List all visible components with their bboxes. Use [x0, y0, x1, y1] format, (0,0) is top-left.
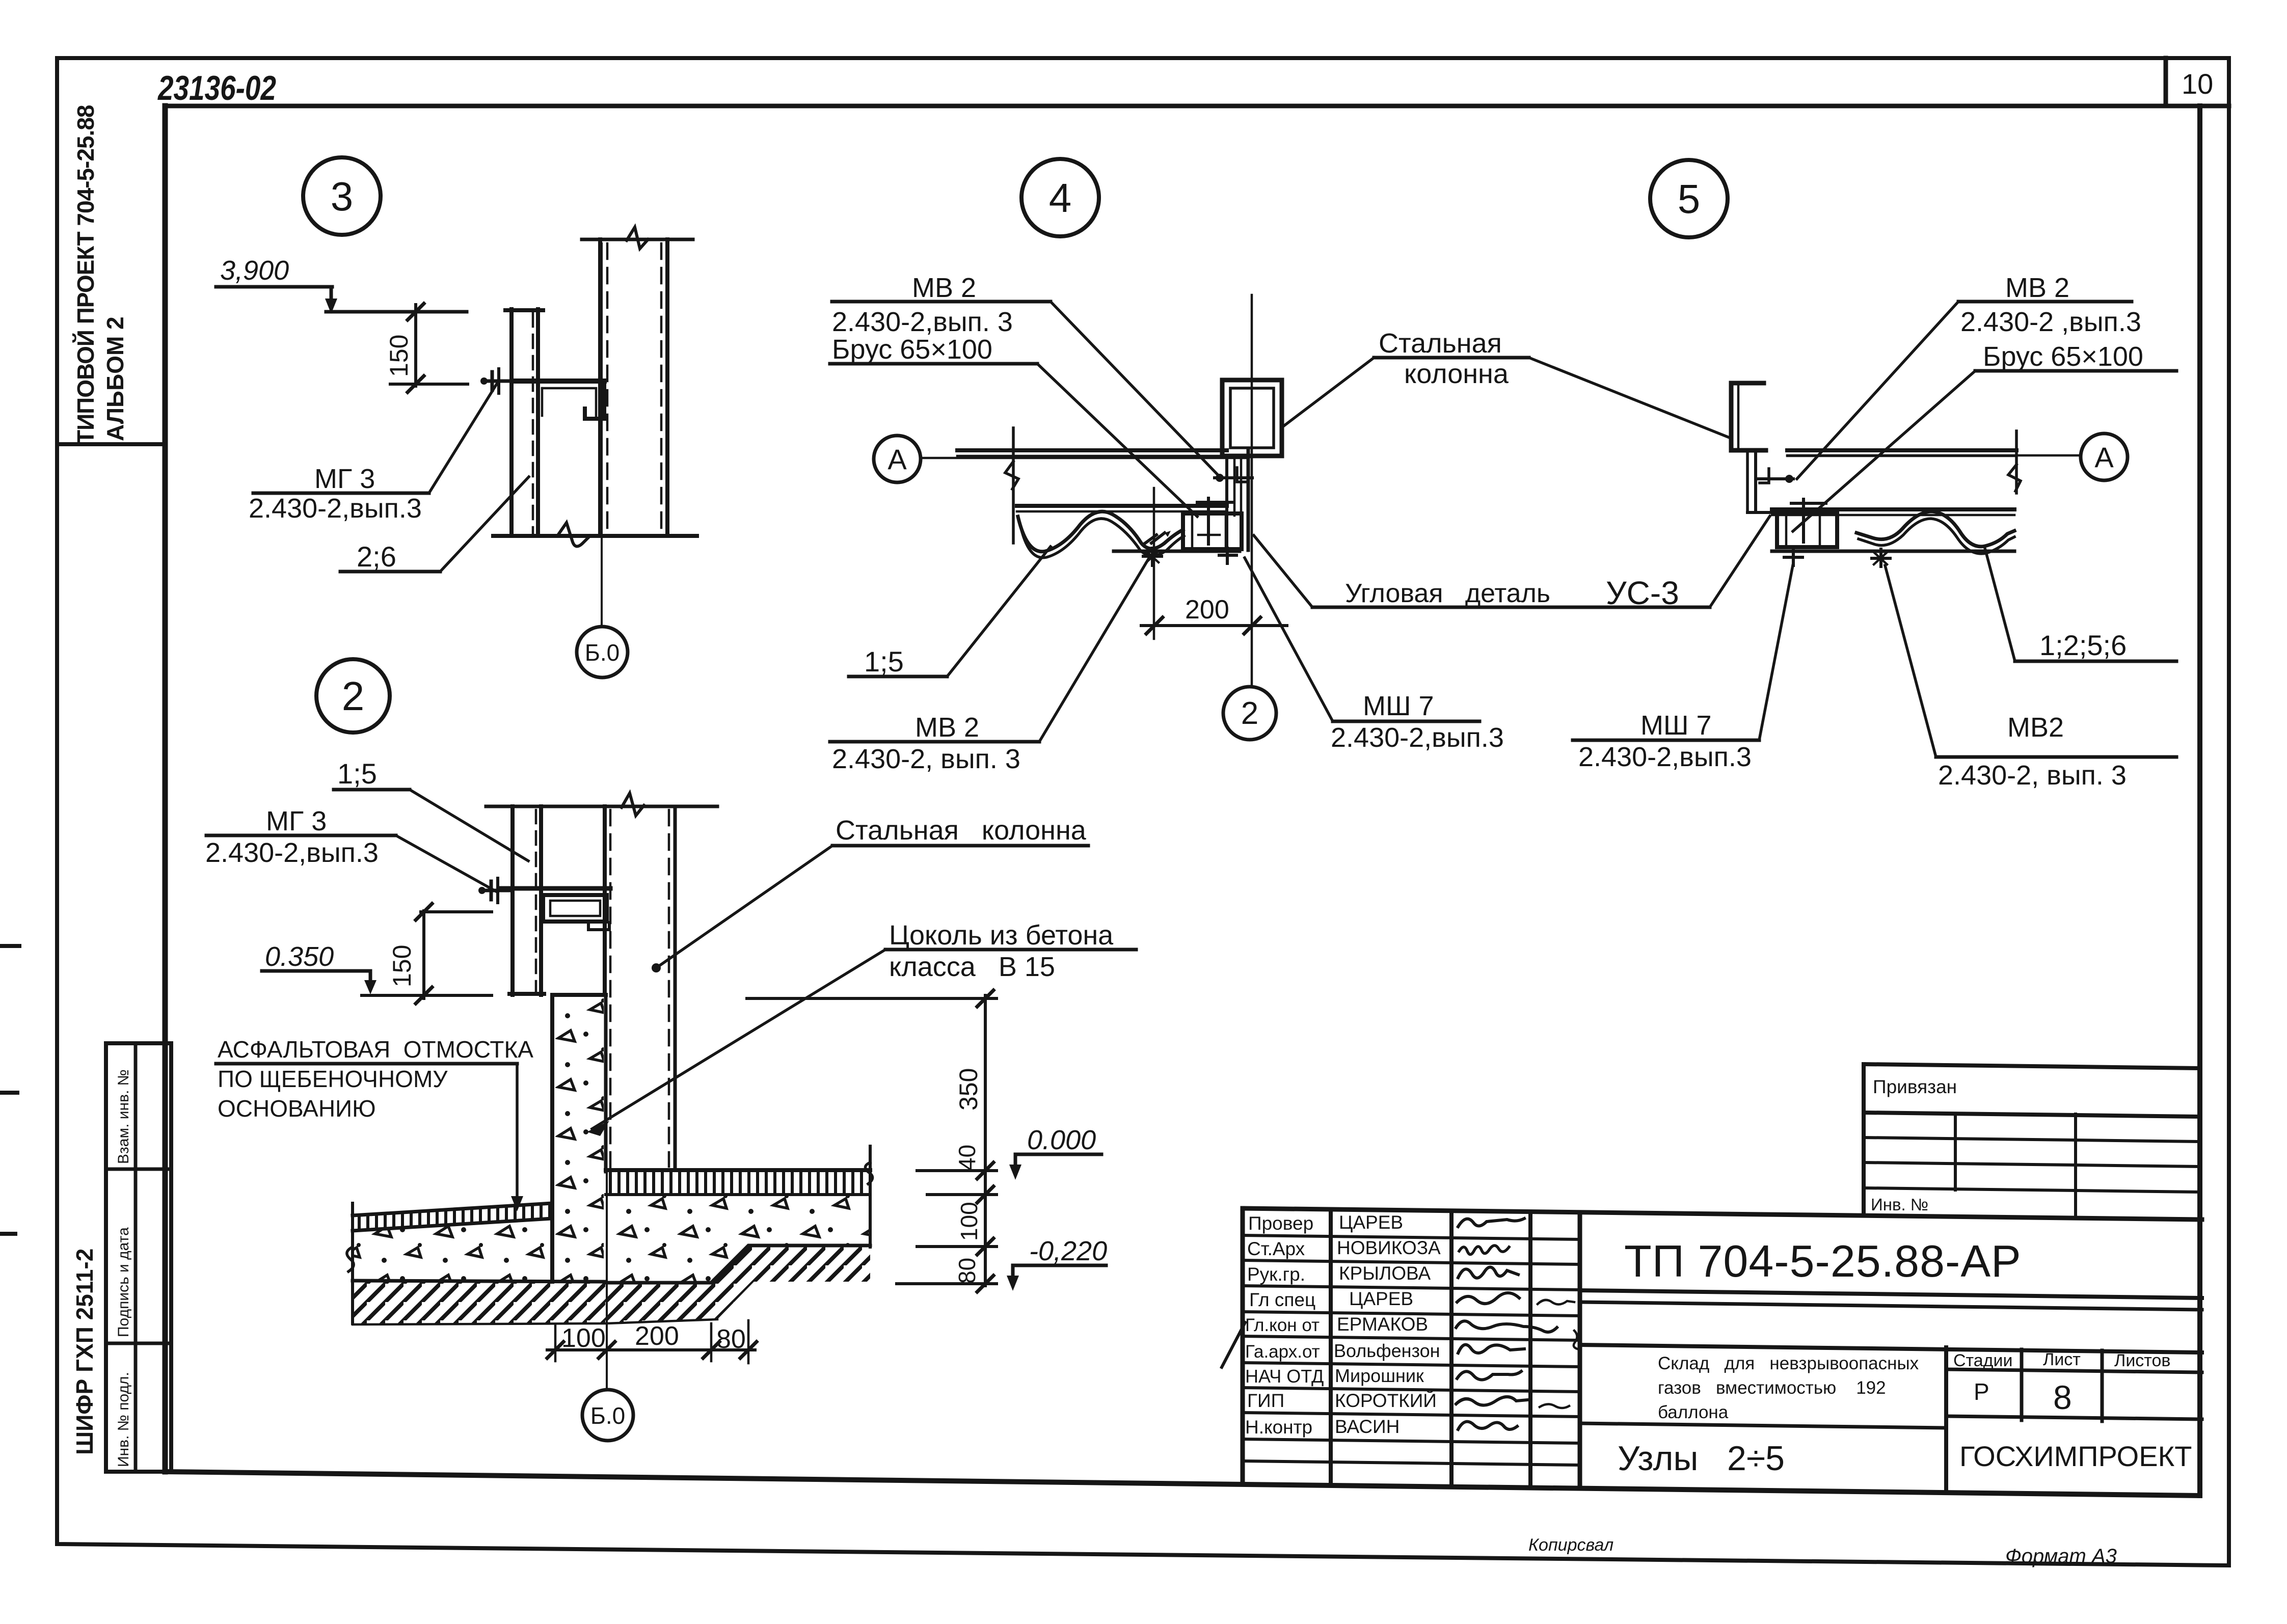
underline УС-3 [1312, 606, 1710, 609]
column left flange [598, 239, 602, 536]
svg-text:2.430-2,вып.3: 2.430-2,вып.3 [205, 837, 379, 868]
svg-text:Вольфензон: Вольфензон [1334, 1340, 1440, 1361]
binding col line 2 [2074, 1114, 2077, 1217]
stage value bottom [1946, 1416, 2202, 1419]
elevation drop line [330, 287, 333, 306]
svg-text:класса В 15: класса В 15 [889, 952, 1055, 982]
svg-text:МГ 3: МГ 3 [314, 464, 375, 494]
underline МВ2 bottom right [1936, 755, 2176, 759]
corrugated sheet wave outer [1856, 511, 2014, 547]
girt channel inner [550, 901, 600, 916]
svg-text:23136-02: 23136-02 [157, 69, 276, 107]
svg-text:Брус 65×100: Брус 65×100 [1983, 341, 2143, 372]
leader Цоколь [592, 950, 885, 1129]
axis bubble Б.0 bottom [582, 1390, 633, 1441]
svg-text:Брус 65×100: Брус 65×100 [832, 334, 992, 365]
channel flange marks [1737, 386, 1740, 447]
dim tick bottom [416, 987, 432, 1004]
leader Стальная to col5 [1529, 358, 1728, 437]
binding row line 3 [1864, 1188, 2200, 1192]
floor right end break [869, 1146, 872, 1247]
floor concrete fill [606, 1195, 870, 1283]
level line 0.350 [362, 994, 492, 997]
svg-text:-0,220: -0,220 [1029, 1236, 1107, 1266]
svg-text:Узлы 2÷5: Узлы 2÷5 [1618, 1439, 1785, 1478]
sheet number box divider [2164, 58, 2168, 106]
stage table left edge [1944, 1347, 1948, 1493]
wall panel top cap [505, 308, 543, 312]
svg-text:Склад для невзрывоопасных: Склад для невзрывоопасных [1658, 1354, 1919, 1373]
wall panel left edge [510, 806, 515, 995]
svg-text:3,900: 3,900 [220, 255, 289, 286]
plinth top [552, 993, 606, 997]
wall panel hidden line [535, 810, 537, 992]
svg-text:0.350: 0.350 [265, 941, 334, 972]
svg-text:150: 150 [385, 335, 413, 377]
svg-text:Б.0: Б.0 [590, 1402, 626, 1429]
column top break line [582, 238, 693, 241]
staff table col line 2 [1449, 1211, 1454, 1487]
sidebar table mid column line [134, 1043, 138, 1472]
svg-text:2: 2 [342, 673, 365, 719]
floor screed hatch band [606, 1170, 870, 1195]
binding col line 1 [1954, 1114, 1957, 1190]
panel bottom inner edge [1772, 514, 2014, 517]
svg-text:Б.0: Б.0 [585, 639, 620, 666]
right dim tick top [977, 990, 993, 1007]
dim bottom ext 3 [710, 1323, 713, 1361]
dim bottom ext 1 [554, 1324, 557, 1361]
stage header bottom [1946, 1369, 2202, 1372]
detail circle 3 [303, 157, 381, 235]
svg-text:350: 350 [954, 1068, 983, 1111]
leader 2;6 to panel [440, 477, 529, 572]
left edge crop mark 1 [0, 944, 19, 948]
staff row line 7 [1243, 1388, 1580, 1392]
svg-text:Стадии: Стадии [1953, 1351, 2012, 1370]
axis bubble 2 [1223, 687, 1276, 740]
svg-text:Стальная колонна: Стальная колонна [836, 815, 1087, 846]
sidebar table box [106, 1043, 171, 1472]
bottom break squiggle [557, 523, 590, 547]
underline МВ2 [1958, 300, 2132, 304]
svg-text:баллона: баллона [1658, 1402, 1729, 1422]
inner drawing frame bottom (slanted scan) [165, 1472, 2200, 1496]
svg-text:МВ 2: МВ 2 [912, 273, 976, 303]
title divider line 1 [1580, 1290, 2202, 1298]
floor screed top edge [606, 1168, 870, 1172]
top break line [486, 805, 717, 808]
svg-text:200: 200 [635, 1321, 679, 1351]
svg-text:1;2;5;6: 1;2;5;6 [2039, 629, 2127, 661]
svg-text:Рук.гр.: Рук.гр. [1247, 1264, 1305, 1285]
svg-text:КОРОТКИЙ: КОРОТКИЙ [1335, 1390, 1437, 1411]
panel bottom inner edge [1017, 510, 1227, 513]
floor concrete bottom profile [606, 1246, 870, 1283]
dimension terminator line [390, 383, 468, 386]
svg-text:МШ 7: МШ 7 [1363, 691, 1434, 721]
wall panel right edge [539, 806, 543, 995]
underline Стальная колонна [832, 844, 1088, 848]
asphalt leader drop [516, 1064, 519, 1205]
column channel section [1731, 383, 1766, 450]
svg-text:МВ 2: МВ 2 [915, 712, 979, 743]
drop -0,220 [1011, 1265, 1015, 1285]
sidebar table row line 1 [106, 1168, 171, 1171]
column hidden line left [606, 243, 609, 534]
svg-text:1;5: 1;5 [864, 645, 904, 678]
svg-text:ШИФР ГХП 2511-2: ШИФР ГХП 2511-2 [71, 1249, 98, 1455]
label underline 2;6 [340, 570, 440, 574]
dim tick left [1146, 617, 1163, 634]
edge plate lines [1746, 450, 1749, 512]
title divider line 4 [1580, 1423, 1946, 1428]
svg-text:ВАСИН: ВАСИН [1335, 1416, 1400, 1437]
svg-text:ГОСХИМПРОЕКТ: ГОСХИМПРОЕКТ [1959, 1440, 2192, 1472]
dim bottom tick 3 [703, 1342, 719, 1358]
stray pencil mark near staff table [1222, 1322, 1245, 1367]
УС-3 box inner line left [1191, 513, 1194, 549]
svg-text:Копирсвал: Копирсвал [1528, 1535, 1613, 1555]
girt rail [513, 378, 604, 384]
steel column square section outer [1222, 380, 1282, 456]
axis line А right [1787, 454, 2081, 457]
wall panel bottom cap [509, 992, 544, 996]
dim chain bottom line [547, 1348, 755, 1351]
corrugated sheet wave outer [1018, 511, 1183, 552]
staff row line 5 [1243, 1336, 1580, 1340]
underline МВ2 top [832, 300, 1051, 304]
svg-text:Р: Р [1974, 1378, 1989, 1405]
holddown bolt right [1226, 548, 1229, 563]
girt channel inner line [542, 388, 596, 416]
right dim chain vertical [984, 995, 987, 1286]
svg-text:2.430-2,вып. 3: 2.430-2,вып. 3 [832, 307, 1013, 337]
dim bottom tick 2 [599, 1342, 615, 1358]
underline -0,220 [1013, 1264, 1106, 1267]
svg-text:газов вместимостью 192: газов вместимостью 192 [1658, 1378, 1886, 1398]
holddown bolt mid [1879, 549, 1882, 566]
leader Брус right [1793, 371, 1975, 531]
panel right break line [2015, 431, 2018, 493]
panel left break line [1012, 428, 1015, 543]
dim bottom ext 4 [747, 1320, 750, 1363]
column hidden line right [660, 243, 663, 534]
panel top edge [957, 448, 1227, 452]
svg-text:ОСНОВАНИЮ: ОСНОВАНИЮ [218, 1095, 376, 1122]
corrugated sheet wave inner [1859, 519, 2014, 554]
title block top line [1243, 1208, 2202, 1220]
axis line to Б.0 bottom [606, 1172, 608, 1390]
svg-text:40: 40 [954, 1145, 980, 1171]
svg-text:Угловая деталь: Угловая деталь [1345, 579, 1550, 608]
sidebar table row line 2 [106, 1342, 171, 1345]
column top break zigzag [627, 227, 648, 249]
girt channel hook [585, 381, 604, 419]
staff row line 6 [1243, 1363, 1580, 1367]
leader УС-3 to detail4 [1254, 535, 1312, 607]
underline 0.350 [262, 969, 370, 973]
leader МШ7 [1245, 558, 1333, 721]
edge plate bottom step [1747, 511, 1779, 514]
box inner line right [1819, 513, 1821, 547]
arrowhead Цоколь [587, 1121, 609, 1136]
inner drawing frame left [163, 106, 168, 1472]
dimension tick bottom [408, 376, 424, 392]
pavement asphalt band fill [353, 1203, 552, 1231]
pavement base bottom edge [353, 1281, 606, 1282]
svg-text:Ст.Арх: Ст.Арх [1247, 1238, 1305, 1259]
anchor bolt in box [1207, 498, 1210, 544]
staff table col line 1 [1329, 1209, 1333, 1485]
svg-text:150: 150 [388, 945, 416, 987]
svg-text:2.430-2, вып. 3: 2.430-2, вып. 3 [832, 744, 1020, 774]
svg-text:ГИП: ГИП [1247, 1390, 1284, 1411]
main block left edge [1578, 1212, 1582, 1488]
underline МШ7 [1333, 720, 1479, 723]
left edge crop mark 3 [0, 1232, 15, 1236]
top break zigzag [622, 793, 644, 816]
binding table outer top [1864, 1064, 2200, 1068]
svg-text:Га.арх.от: Га.арх.от [1245, 1342, 1320, 1362]
panel right break zigzag [2008, 465, 2021, 491]
soil hatch left band [353, 1281, 606, 1324]
stage table col 1 [2020, 1349, 2024, 1420]
svg-text:Подпись и дата: Подпись и дата [115, 1227, 132, 1337]
date scribbles [1538, 1300, 1574, 1305]
asphalt leader arrowhead [511, 1196, 523, 1211]
svg-text:2;6: 2;6 [357, 540, 396, 573]
panel bottom edge [1772, 507, 2014, 511]
svg-text:АСФАЛЬТОВАЯ ОТМОСТКА: АСФАЛЬТОВАЯ ОТМОСТКА [218, 1036, 533, 1063]
svg-text:4: 4 [1049, 175, 1072, 221]
svg-text:80: 80 [954, 1258, 980, 1284]
svg-text:ТИПОВОЙ ПРОЕКТ 704-5-25.88: ТИПОВОЙ ПРОЕКТ 704-5-25.88 [72, 105, 99, 444]
pavement rubble base fill [353, 1219, 552, 1281]
svg-text:2.430-2,вып.3: 2.430-2,вып.3 [1331, 722, 1504, 753]
soil bottom boundary [353, 1319, 717, 1324]
svg-text:200: 200 [1185, 595, 1229, 625]
pavement asphalt top edge [353, 1203, 552, 1215]
svg-text:100: 100 [956, 1202, 982, 1241]
axis line to Б.0 [601, 243, 603, 627]
axis bubble А right [2081, 434, 2128, 480]
column axis vertical [1251, 295, 1253, 687]
column left flange [603, 806, 607, 995]
pavement asphalt bottom edge [353, 1219, 552, 1231]
right dim terminator bottom [897, 1282, 997, 1285]
svg-text:МГ 3: МГ 3 [266, 806, 327, 836]
drop 0.000 [1014, 1154, 1017, 1173]
arrowhead 0.350 [364, 980, 376, 994]
label underline МГ3 [253, 492, 429, 495]
corrugated sheet wave inner [1020, 519, 1184, 558]
underline 1;5 [334, 788, 410, 792]
floor screed bottom edge [606, 1193, 870, 1196]
panel left break zigzag [1005, 462, 1018, 489]
steel column square section inner [1230, 388, 1274, 448]
holddown bolt left [1792, 548, 1795, 565]
wall panel left edge [509, 309, 514, 536]
svg-text:ТП 704-5-25.88-АР: ТП 704-5-25.88-АР [1624, 1236, 2022, 1286]
fastener bolt top [1758, 477, 1793, 480]
inner drawing frame right [2197, 106, 2202, 1496]
drop 0.350 [369, 971, 372, 988]
svg-text:2.430-2 ,вып.3: 2.430-2 ,вып.3 [1960, 307, 2141, 337]
svg-text:1;5: 1;5 [337, 757, 377, 790]
bolt fastener [487, 380, 512, 383]
girt rail detail2 [500, 886, 610, 891]
title divider line 2 [1580, 1302, 2202, 1310]
svg-text:МВ2: МВ2 [2007, 712, 2064, 743]
leader 1;2;5;6 [1985, 548, 2015, 661]
soil hatch mid band [606, 1246, 870, 1323]
right dim terminator 100/80 [917, 1245, 997, 1248]
svg-text:Привязан: Привязан [1873, 1076, 1957, 1097]
binding table left edge [1862, 1064, 1866, 1215]
leader УС-3 to detail5 [1710, 516, 1770, 607]
underline 1;5 [849, 675, 947, 679]
underline 1;2;5;6 [2015, 660, 2176, 663]
anchor bolt in box right [1802, 499, 1805, 542]
axis bubble Б.0 [577, 627, 628, 678]
plinth concrete fill [555, 997, 604, 1281]
underline 0.000 [1015, 1153, 1101, 1156]
dim tick top [416, 904, 432, 920]
svg-text:ЕРМАКОВ: ЕРМАКОВ [1337, 1314, 1428, 1335]
svg-text:2: 2 [1241, 696, 1258, 731]
svg-text:Гл спец: Гл спец [1249, 1289, 1315, 1310]
plinth right edge [604, 995, 608, 1172]
inner drawing frame top [165, 104, 2229, 109]
bottom closure line right [1772, 550, 2014, 553]
underline МВ2 bottom [830, 740, 1039, 744]
signature scribbles [1458, 1219, 1524, 1227]
svg-text:Листов: Листов [2114, 1351, 2170, 1370]
svg-text:МШ 7: МШ 7 [1640, 710, 1712, 741]
sidebar divider line [57, 442, 165, 446]
leader МВ2 bottom [1039, 556, 1150, 742]
staff row line 2 [1243, 1260, 1580, 1264]
top fastener bolt [1215, 476, 1252, 479]
leader 1;5 [410, 790, 528, 861]
binding row line 1 [1864, 1138, 2200, 1142]
detail circle 5 [1650, 160, 1728, 237]
leader Стальная to col4 [1284, 358, 1374, 426]
elevation arrowhead [325, 299, 337, 314]
svg-text:НАЧ ОТД: НАЧ ОТД [1245, 1366, 1324, 1387]
girt hook [588, 922, 609, 930]
svg-text:10: 10 [2182, 68, 2213, 100]
svg-text:Стальная: Стальная [1379, 328, 1502, 359]
svg-text:0.000: 0.000 [1027, 1125, 1096, 1155]
right dim terminator top [747, 997, 997, 1000]
svg-text:Инв. № подл.: Инв. № подл. [115, 1372, 132, 1467]
dim 150 vertical [422, 911, 425, 998]
svg-text:Лист: Лист [2043, 1350, 2081, 1369]
svg-text:ЦАРЕВ: ЦАРЕВ [1349, 1288, 1413, 1309]
slip arrows symbol [1145, 533, 1165, 543]
column bottom line [493, 534, 697, 538]
svg-text:Взам. инв. №: Взам. инв. № [115, 1069, 132, 1164]
staff table left edge [1241, 1208, 1245, 1484]
svg-text:КРЫЛОВА: КРЫЛОВА [1339, 1263, 1431, 1284]
svg-text:А: А [2094, 441, 2114, 473]
svg-text:Н.контр: Н.контр [1245, 1417, 1312, 1438]
dimension tick top [408, 304, 424, 320]
staff row line 10 [1243, 1461, 1580, 1465]
left edge crop mark 2 [0, 1091, 17, 1095]
binding row line 2 [1864, 1162, 2200, 1167]
svg-text:колонна: колонна [1404, 359, 1509, 389]
svg-text:А: А [887, 443, 907, 475]
axis bubble А left [874, 436, 921, 482]
dim tick right [1244, 617, 1260, 634]
leader МШ7 right [1759, 565, 1793, 740]
girt channel box [543, 895, 607, 922]
svg-text:80: 80 [716, 1324, 746, 1354]
column hidden line left [609, 810, 612, 1168]
staff row line 4 [1243, 1312, 1580, 1316]
leader МВ2 [1797, 302, 1958, 479]
svg-text:Цоколь из бетона: Цоколь из бетона [889, 920, 1114, 951]
detail circle 4 [1021, 159, 1099, 236]
svg-text:2.430-2,вып.3: 2.430-2,вып.3 [1578, 742, 1752, 772]
stage table col 2 [2101, 1350, 2104, 1421]
svg-text:Инв. №: Инв. № [1871, 1195, 1928, 1214]
svg-text:МВ 2: МВ 2 [2005, 273, 2069, 303]
svg-text:Формат А3: Формат А3 [2005, 1545, 2117, 1567]
staff row line 8 [1243, 1413, 1580, 1417]
leader МВ2 bottom right [1885, 565, 1936, 757]
right dim terminator 40/100 [927, 1193, 997, 1196]
plinth left edge [550, 995, 554, 1282]
elevation underline [216, 285, 332, 289]
svg-text:2.430-2, вып. 3: 2.430-2, вып. 3 [1938, 760, 2127, 791]
box inner line left [1785, 513, 1788, 547]
svg-text:Мирошник: Мирошник [1335, 1365, 1424, 1386]
svg-text:3: 3 [331, 174, 354, 219]
underline МШ7 right [1573, 739, 1759, 742]
УС-3 box inner line right [1225, 513, 1227, 549]
detail circle 2 [316, 659, 390, 733]
pavement left end break [351, 1203, 354, 1323]
svg-text:5: 5 [1678, 176, 1701, 222]
wall panel right edge [536, 309, 540, 536]
column right flange [665, 239, 669, 536]
title divider line 3 [1580, 1345, 2202, 1352]
corner unit УС-3 box right [1777, 513, 1837, 547]
svg-text:ПО ЩЕБЕНОЧНОМУ: ПО ЩЕБЕНОЧНОМУ [218, 1066, 448, 1092]
svg-text:8: 8 [2053, 1378, 2072, 1416]
staff row line 3 [1243, 1286, 1580, 1290]
axis line А [921, 457, 1246, 459]
leader 1;5 [947, 547, 1051, 676]
staff table col line 3 [1528, 1212, 1532, 1488]
leader МВ2 top [1051, 302, 1222, 479]
leader МГ3 [396, 835, 496, 891]
elevation level line [326, 310, 467, 314]
svg-text:ЦАРЕВ: ЦАРЕВ [1339, 1212, 1403, 1233]
corner unit УС-3 box [1183, 513, 1242, 549]
column hidden line right [668, 810, 670, 1167]
dim extension line [1153, 488, 1155, 639]
underline Брус [830, 362, 1037, 366]
dim 150 top terminator [421, 910, 492, 913]
panel top inner edge [1787, 455, 2016, 457]
asphalt underline [216, 1062, 517, 1066]
underline Стальная [1374, 356, 1529, 360]
